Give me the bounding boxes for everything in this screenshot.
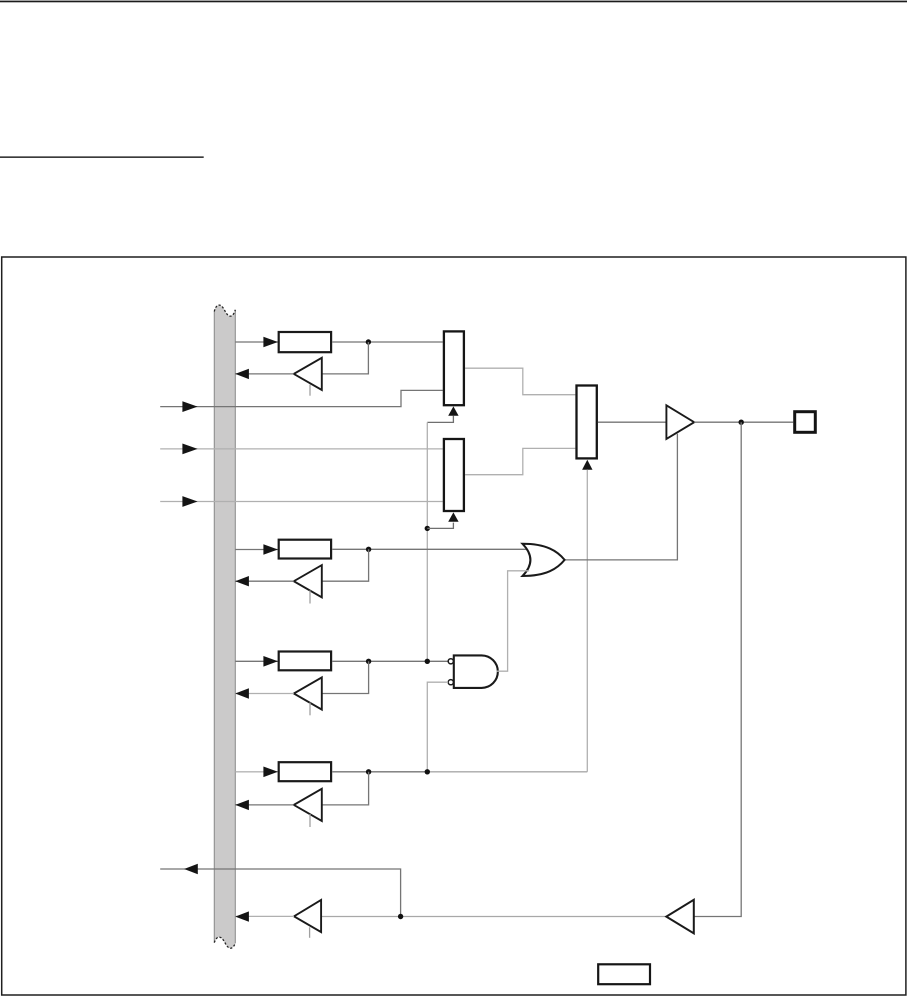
OR gate G1	[523, 544, 565, 576]
wire: R3 output down to read buffer T3	[322, 661, 368, 693]
enable net of B1 from OR gate output	[565, 434, 678, 560]
junction node: G2 input 2 net on R4 output	[425, 769, 430, 774]
wire: T3 output to bus	[235, 693, 293, 695]
arrowhead into bus from T4	[235, 800, 249, 810]
output signal line to left (from sync net)	[160, 869, 400, 916]
wire: input buffer B2 output to read buffer T5	[321, 916, 666, 918]
vertical control net (clock net)	[426, 422, 428, 661]
arrowhead on input line 1	[182, 401, 197, 412]
enable stub of T2	[309, 590, 311, 603]
register R3	[279, 652, 331, 671]
heading underline	[0, 156, 204, 158]
wire: R4 output down to read buffer T4	[322, 772, 368, 805]
register R3 input wire from bus	[235, 660, 277, 662]
input buffer B2 (points left)	[666, 900, 694, 934]
read buffer T1 (tri-state, points left)	[294, 358, 322, 390]
figure frame	[2, 257, 906, 995]
read buffer T3	[294, 677, 322, 709]
enable stub of T5	[309, 927, 311, 938]
wire: R1 output down to read buffer T1	[322, 342, 368, 374]
arrowhead into bus from T1	[235, 369, 249, 379]
clock arrowhead into U1 bottom	[448, 406, 458, 415]
clock arrowhead into U2 bottom	[448, 512, 458, 521]
clock wire for U1: from vertical control net	[427, 416, 453, 423]
read buffer T4	[294, 789, 322, 821]
wire: register R1 output to latch U1	[332, 341, 443, 343]
legend box (empty)	[598, 964, 650, 984]
register R2 input wire from bus	[235, 549, 277, 551]
wire: T1 output to bus	[235, 373, 293, 375]
wire: T2 output to bus	[235, 580, 293, 582]
input signal line 3 (to latch U2 lower input)	[160, 501, 443, 503]
arrowhead into bus from T2	[235, 576, 249, 586]
enable stub of T1	[309, 385, 311, 396]
inverter bubble input 1 of G2	[448, 659, 453, 664]
junction node on R4 output	[366, 769, 371, 774]
output buffer B1 (points right)	[666, 405, 694, 439]
input signal line 2 (to latch U2 upper input)	[160, 448, 443, 450]
pad feedback net down to input buffer B2	[694, 422, 741, 916]
arrowhead on input line 2	[182, 444, 197, 455]
enable stub of T3	[309, 703, 311, 716]
wire: R3 output to AND gate input 1	[332, 660, 448, 662]
read buffer T5	[294, 900, 321, 932]
junction node: clock net end on R3 output	[425, 659, 430, 664]
latch U2 (tall narrow box, middle)	[444, 439, 464, 511]
junction node on R3 output	[366, 659, 371, 664]
input signal line 1 (to latch U1 lower input)	[160, 390, 443, 406]
register R4	[279, 762, 331, 781]
arrowhead on input line 3	[182, 496, 197, 507]
arrowhead into register R3	[263, 656, 278, 667]
clock wire for U2	[427, 523, 453, 529]
wire: R2 output to OR gate input 1	[332, 548, 527, 550]
wire: mux M1 output to output buffer	[598, 421, 667, 423]
arrowhead into bus from T5	[235, 911, 249, 921]
junction node on pad net	[739, 420, 744, 425]
wire: T5 output to bus	[235, 915, 294, 917]
inverter bubble input 2 of G2	[448, 680, 453, 685]
junction node on sync net	[398, 914, 403, 919]
wire: T4 output to bus	[235, 804, 293, 806]
arrowhead into register R2	[263, 544, 278, 555]
page top rule	[0, 1, 907, 3]
junction node on R2 output	[366, 547, 371, 552]
wire: G2 output to OR gate input 2	[497, 571, 530, 671]
select arrowhead into M1 bottom	[582, 460, 592, 470]
arrowhead into register R4	[263, 767, 278, 778]
enable stub of T4	[309, 814, 311, 827]
arrowhead into bus from T3	[235, 688, 249, 698]
wire: R2 output down to read buffer T2	[322, 549, 368, 581]
wire: G2 input 2 from R4 output net	[427, 682, 448, 772]
pad P1 (output pin square)	[795, 412, 816, 433]
junction node on R1 output	[366, 339, 371, 344]
latch U1 (tall narrow box, top)	[444, 331, 464, 405]
data bus (shaded vertical bar, torn ends)	[214, 305, 235, 948]
register R4 input wire from bus	[235, 771, 277, 773]
arrowhead into register R1	[263, 337, 278, 348]
wire: U1 output to mux input A	[465, 368, 575, 395]
wire: buffer B1 output to pad	[694, 421, 793, 423]
wire: R4 output (to mux select net)	[332, 771, 427, 773]
junction node: clock net to U2 clock	[425, 526, 430, 531]
AND gate G2 (with inverted inputs)	[454, 655, 498, 688]
multiplexer M1 (tall narrow box, right)	[577, 386, 597, 459]
register R1 (top, write register)	[279, 332, 331, 352]
wire: U2 output to mux input B	[465, 448, 575, 474]
wire: bus to register R1 input	[235, 341, 277, 343]
arrowhead pointing left on output signal line	[184, 864, 198, 874]
register R2	[279, 540, 331, 559]
select net: from register R4 output up to M1	[586, 470, 588, 772]
read buffer T2	[294, 565, 322, 597]
